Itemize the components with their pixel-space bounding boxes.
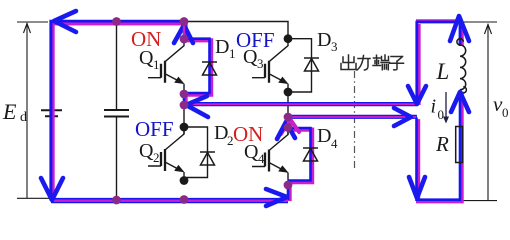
svg-text:L: L xyxy=(436,59,450,84)
svg-text:0: 0 xyxy=(502,105,509,120)
svg-text:D: D xyxy=(317,29,331,51)
svg-text:i: i xyxy=(431,96,437,118)
svg-text:3: 3 xyxy=(257,56,264,71)
svg-text:E: E xyxy=(2,99,17,124)
svg-text:4: 4 xyxy=(258,151,265,166)
svg-text:D: D xyxy=(215,36,229,58)
svg-text:D: D xyxy=(317,125,331,147)
svg-text:2: 2 xyxy=(153,150,160,165)
svg-text:4: 4 xyxy=(331,136,338,151)
svg-text:1: 1 xyxy=(153,57,160,72)
svg-text:0: 0 xyxy=(438,107,445,122)
svg-text:R: R xyxy=(435,132,449,156)
svg-text:Q: Q xyxy=(139,140,154,162)
svg-text:3: 3 xyxy=(331,39,338,54)
svg-text:OFF: OFF xyxy=(236,28,275,52)
svg-text:OFF: OFF xyxy=(135,117,174,141)
svg-text:ON: ON xyxy=(233,122,263,146)
svg-text:ON: ON xyxy=(131,27,161,51)
svg-text:d: d xyxy=(20,110,27,125)
svg-text:1: 1 xyxy=(229,46,236,61)
